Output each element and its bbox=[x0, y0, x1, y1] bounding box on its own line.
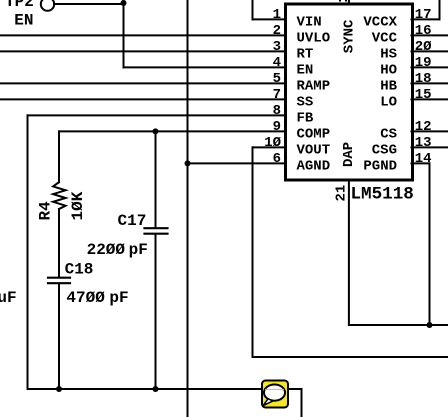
svg-text:C18: C18 bbox=[65, 260, 94, 278]
wire pin14 PGND row bbox=[412, 162, 430, 164]
svg-text:pF: pF bbox=[109, 289, 128, 307]
wire pin6 AGND row bbox=[188, 162, 286, 164]
resistor R4 zigzag bbox=[53, 182, 66, 209]
svg-text:RAMP: RAMP bbox=[297, 78, 331, 94]
wire VOUT horizontal to right edge bbox=[253, 356, 448, 358]
wire FB vertical bbox=[27, 115, 29, 389]
wire pin21 DAP stub bbox=[348, 181, 350, 325]
svg-text:47ØØ: 47ØØ bbox=[66, 289, 105, 307]
svg-text:pF: pF bbox=[129, 241, 148, 259]
svg-text:13: 13 bbox=[415, 135, 432, 151]
svg-text:CS: CS bbox=[380, 126, 397, 142]
wire pin10 VOUT row bbox=[253, 146, 286, 148]
svg-text:SYNC: SYNC bbox=[342, 19, 358, 53]
svg-text:7: 7 bbox=[273, 87, 281, 103]
svg-text:14: 14 bbox=[415, 151, 432, 167]
svg-text:COMP: COMP bbox=[297, 126, 331, 142]
wire pin11 SYNC stub top bbox=[348, 0, 350, 3]
wire pin15 LO row bbox=[412, 98, 448, 100]
capacitor C17 plates bbox=[145, 227, 168, 229]
wire pin16 VCC row bbox=[412, 34, 448, 36]
wire VCCX riser bbox=[439, 0, 441, 19]
wire TP2 vertical to EN bbox=[123, 0, 125, 67]
wire pin5 RAMP row bbox=[0, 82, 285, 84]
wire TP2 horizontal bbox=[54, 3, 124, 5]
wire VIN riser up bbox=[252, 0, 254, 19]
svg-text:18: 18 bbox=[415, 71, 432, 87]
capacitor C18 plates bbox=[48, 277, 70, 279]
svg-text:RT: RT bbox=[297, 46, 314, 62]
svg-text:LO: LO bbox=[380, 94, 397, 110]
pin 11 label remnant bbox=[339, 0, 347, 2]
wire pin13 CSG row bbox=[412, 146, 448, 148]
wire rail corner down bbox=[301, 389, 303, 417]
wire C18 to rail bbox=[58, 284, 60, 389]
wire pin3 RT row bbox=[0, 50, 285, 52]
wire COMP to R4 top bbox=[58, 131, 60, 182]
svg-text:5: 5 bbox=[273, 71, 281, 87]
svg-text:21: 21 bbox=[333, 185, 349, 202]
svg-text:CSG: CSG bbox=[372, 142, 397, 158]
svg-text:HS: HS bbox=[380, 46, 397, 62]
wire pin8 FB row bbox=[28, 114, 286, 116]
wire pin4 EN row bbox=[124, 66, 286, 68]
node junction AGND/vertical bbox=[185, 160, 191, 166]
wire pin2 UVLO row bbox=[0, 34, 285, 36]
svg-text:9: 9 bbox=[273, 119, 281, 135]
svg-text:2: 2 bbox=[273, 23, 281, 39]
node junction DAP/PGND bbox=[427, 322, 433, 328]
svg-text:VOUT: VOUT bbox=[297, 142, 331, 158]
svg-text:6: 6 bbox=[273, 151, 281, 167]
wire pin7 SS row bbox=[0, 98, 285, 100]
svg-text:15: 15 bbox=[415, 87, 432, 103]
svg-text:2Ø: 2Ø bbox=[415, 39, 432, 55]
node junction COMP/C17 bbox=[153, 128, 159, 134]
svg-text:HO: HO bbox=[380, 62, 397, 78]
svg-text:uF: uF bbox=[0, 289, 17, 307]
svg-text:R4: R4 bbox=[36, 201, 54, 221]
svg-text:PGND: PGND bbox=[363, 158, 397, 174]
svg-text:LM5118: LM5118 bbox=[351, 184, 414, 204]
node junction TP2 top bbox=[121, 0, 127, 6]
svg-text:17: 17 bbox=[415, 7, 432, 23]
wire pin9 COMP row bbox=[59, 130, 285, 132]
svg-text:TP2: TP2 bbox=[5, 0, 34, 11]
wire pin20 HS row bbox=[412, 50, 448, 52]
svg-text:19: 19 bbox=[415, 55, 432, 71]
node junction rail C17 bbox=[153, 386, 159, 392]
svg-text:8: 8 bbox=[273, 103, 281, 119]
wire pin19 HO row bbox=[412, 66, 448, 68]
wire pin17 VCCX row bbox=[412, 18, 440, 20]
svg-text:C17: C17 bbox=[118, 212, 147, 230]
wire pin18 HB row bbox=[412, 82, 448, 84]
wire COMP drop to C17 bbox=[155, 131, 157, 227]
wire VOUT vertical down bbox=[252, 147, 254, 357]
wire R4 to C18 bbox=[58, 209, 60, 277]
wire pin14 PGND drop bbox=[429, 163, 431, 325]
svg-text:1Ø: 1Ø bbox=[264, 135, 281, 151]
svg-text:HB: HB bbox=[380, 78, 397, 94]
wire C17 to rail bbox=[155, 235, 157, 390]
test point TP2 bbox=[41, 0, 54, 11]
wire pin12 CS row bbox=[412, 130, 448, 132]
svg-text:EN: EN bbox=[297, 62, 314, 78]
svg-text:FB: FB bbox=[297, 110, 314, 126]
svg-text:EN: EN bbox=[14, 11, 33, 29]
op-amp U? : regulator IC LM5118 body bbox=[286, 4, 413, 180]
wire long vertical net bbox=[187, 0, 189, 417]
wire DAP to PGND horizontal bbox=[349, 324, 448, 326]
svg-text:DAP: DAP bbox=[341, 142, 357, 167]
svg-text:VCCX: VCCX bbox=[363, 14, 397, 30]
node junction rail R4 bbox=[56, 386, 62, 392]
svg-text:3: 3 bbox=[273, 39, 281, 55]
svg-text:16: 16 bbox=[415, 23, 432, 39]
svg-text:SS: SS bbox=[297, 94, 314, 110]
svg-text:1: 1 bbox=[273, 7, 281, 23]
svg-text:1ØK: 1ØK bbox=[69, 191, 87, 220]
svg-text:12: 12 bbox=[415, 119, 432, 135]
svg-text:AGND: AGND bbox=[297, 158, 331, 174]
svg-text:4: 4 bbox=[273, 55, 281, 71]
note icon speech bubble bbox=[262, 381, 288, 408]
svg-text:VCC: VCC bbox=[372, 30, 398, 46]
svg-text:VIN: VIN bbox=[297, 14, 322, 30]
svg-text:22ØØ: 22ØØ bbox=[87, 241, 126, 259]
wire ground rail bbox=[28, 388, 302, 390]
wire pin1 VIN row bbox=[253, 18, 286, 20]
svg-text:UVLO: UVLO bbox=[297, 30, 331, 46]
